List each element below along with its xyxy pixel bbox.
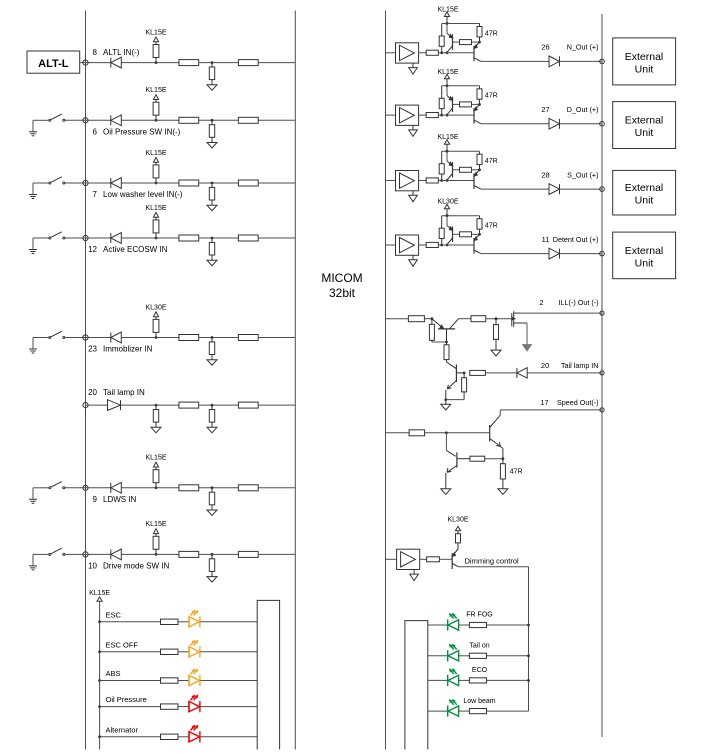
KL15E label and arrow S_Out (+) <box>437 134 458 151</box>
svg-text:47R: 47R <box>485 158 498 165</box>
svg-text:6: 6 <box>93 128 98 137</box>
wire base resistor to junction D_Out (+) <box>438 114 441 116</box>
svg-text:Immoblizer IN: Immoblizer IN <box>103 345 153 354</box>
wire LED supply rail bottom-left <box>99 601 101 749</box>
wire to 47R junction Detent Out (+) <box>472 233 480 235</box>
wire MICOM to buffer N_Out (+) <box>386 52 396 54</box>
junction 47R N_Out (+) <box>478 41 481 44</box>
svg-text:Alternator: Alternator <box>106 725 139 734</box>
output wire S_Out (+) <box>481 188 549 190</box>
svg-text:External: External <box>625 245 664 257</box>
KL15E pull-up row 9 <box>145 455 166 490</box>
svg-text:KL30E: KL30E <box>145 304 166 311</box>
wire speed base down <box>445 433 447 451</box>
External Unit box 3 <box>613 170 676 215</box>
buffer amplifier Detent Out (+) <box>396 235 419 266</box>
base resistor Detent Out (+) <box>426 242 438 247</box>
transistor Q1 N_Out (+) <box>447 24 453 53</box>
transistor Q speed lower <box>446 450 470 488</box>
svg-text:20: 20 <box>88 388 97 397</box>
wire block to LED FR FOG <box>428 624 448 626</box>
svg-text:28: 28 <box>541 170 549 179</box>
svg-text:Low beam: Low beam <box>463 698 495 705</box>
svg-text:KL15E: KL15E <box>437 7 458 14</box>
svg-text:LDWS IN: LDWS IN <box>103 495 137 504</box>
node ILL output <box>600 311 604 315</box>
resistor row 20 second <box>238 402 258 408</box>
KL15E pull-up row 7 <box>145 150 166 185</box>
svg-text:47R: 47R <box>485 30 498 37</box>
wire diode to bus tail <box>527 372 602 374</box>
svg-text:Drive mode SW IN: Drive mode SW IN <box>103 562 169 571</box>
resistor ILL vertical divider <box>429 319 434 342</box>
transistor Q2 S_Out (+) <box>474 170 481 189</box>
wire node to diode row 9 <box>86 487 111 489</box>
LED Oil Pressure <box>189 695 200 712</box>
LED Low beam <box>448 700 459 717</box>
svg-text:Low washer level IN(-): Low washer level IN(-) <box>103 190 183 199</box>
junction dots bottom Detent Out (+) <box>440 244 448 247</box>
wire diode to bus Detent Out (+) <box>560 253 603 255</box>
svg-text:ALTL IN(-): ALTL IN(-) <box>103 48 140 57</box>
47R resistor speed <box>500 459 505 489</box>
wire buffer to base resistor S_Out (+) <box>419 180 427 182</box>
supply rail N_Out (+) <box>442 23 480 25</box>
pull-down resistor with ground arrow row 23 <box>207 336 217 365</box>
resistor speed input <box>409 430 425 436</box>
output diode D_Out (+) <box>549 118 560 129</box>
wire speed resistor to Q1 <box>425 432 490 434</box>
junction ILL gate branch <box>495 317 498 320</box>
interbase resistor N_Out (+) <box>460 40 472 45</box>
svg-text:ALT-L: ALT-L <box>38 58 69 70</box>
wire LED to cluster ABS <box>200 680 257 682</box>
interbase resistor D_Out (+) <box>460 102 472 107</box>
resistor tail base <box>470 370 486 375</box>
node output N_Out (+) <box>600 59 605 64</box>
svg-text:FR FOG: FR FOG <box>466 612 492 619</box>
svg-text:ESC OFF: ESC OFF <box>106 640 139 649</box>
resistor ESC row <box>161 619 179 624</box>
junction ESC row <box>98 620 101 623</box>
junction ABS row <box>98 679 101 682</box>
wire to 47R junction D_Out (+) <box>472 103 480 105</box>
svg-text:Detent Out (+): Detent Out (+) <box>553 235 599 244</box>
diode row 12 <box>111 233 122 244</box>
wire resistor to rail Low beam <box>487 710 529 712</box>
resistor row 6 first <box>179 117 199 123</box>
base line Q1 N_Out (+) <box>453 41 460 43</box>
junction tail base <box>463 372 466 375</box>
svg-text:9: 9 <box>93 495 98 504</box>
wire between resistors row 23 <box>199 337 239 339</box>
pull-up resistor D_Out (+) <box>439 86 444 115</box>
wire MICOM to buffer D_Out (+) <box>386 114 396 116</box>
KL15E pull-up row 8 <box>145 29 166 64</box>
transistor Q1 D_Out (+) <box>447 86 453 115</box>
switch and ground for input 7 <box>29 177 86 199</box>
wire diode to pullup junction row 8 <box>121 62 156 64</box>
output wire N_Out (+) <box>481 60 549 62</box>
KL30E label dimming <box>447 517 468 534</box>
wire diode to pullup junction row 10 <box>121 553 156 555</box>
svg-text:Unit: Unit <box>635 127 654 139</box>
wire LED to cluster Alternator <box>200 736 257 738</box>
wire to MICOM row 9 <box>258 487 295 489</box>
transistor Q2 D_Out (+) <box>474 104 481 123</box>
pull-down resistor with ground arrow row 9 <box>207 486 217 515</box>
instrument cluster block bottom-left <box>257 600 279 749</box>
node output D_Out (+) <box>600 121 605 126</box>
output wire Detent Out (+) <box>481 253 549 255</box>
node pin 10 on input bus <box>83 552 88 557</box>
wire node to diode row 7 <box>86 182 111 184</box>
wire ESC OFF row <box>100 651 161 653</box>
ground arrow MOSFET source <box>523 345 532 351</box>
wire ALT-L to bus <box>80 62 86 64</box>
wire diode to bus N_Out (+) <box>560 60 603 62</box>
svg-text:Active ECOSW IN: Active ECOSW IN <box>103 245 168 254</box>
wire diode to bus D_Out (+) <box>560 123 603 125</box>
wire bottom to Q2 D_Out (+) <box>442 114 474 116</box>
wire dimming control <box>459 566 529 568</box>
wire buffer to base resistor D_Out (+) <box>419 114 427 116</box>
svg-text:KL15E: KL15E <box>145 205 166 212</box>
LED Alternator <box>189 726 200 743</box>
switch and ground for input 6 <box>29 114 86 136</box>
wire to 47R junction S_Out (+) <box>472 169 480 171</box>
wire resistor to LED Alternator <box>178 736 189 738</box>
wire node to diode row 10 <box>86 553 111 555</box>
47R resistor N_Out (+) <box>477 24 482 43</box>
resistor row 9 first <box>179 485 199 491</box>
svg-text:ESC: ESC <box>106 610 122 619</box>
svg-text:ECO: ECO <box>472 667 488 674</box>
wire between resistors row 9 <box>199 487 239 489</box>
transistor Q2 Detent Out (+) <box>474 234 481 253</box>
External Unit box 4 <box>613 232 676 279</box>
ground arrow speed 47R <box>498 489 508 495</box>
svg-text:47R: 47R <box>485 223 498 230</box>
switch and ground for input 23 <box>29 331 86 353</box>
KL15E label and arrow N_Out (+) <box>437 7 458 24</box>
KL15E pull-up row 12 <box>145 205 166 240</box>
wire MICOM to dimming buffer <box>386 558 397 560</box>
47R resistor S_Out (+) <box>477 151 482 170</box>
svg-text:MICOM: MICOM <box>321 271 362 285</box>
wire bottom to Q2 N_Out (+) <box>442 52 474 54</box>
svg-text:10: 10 <box>88 562 97 571</box>
transistor Q speed upper <box>490 415 503 459</box>
junction dots bottom S_Out (+) <box>440 179 448 182</box>
wire between resistors row 10 <box>199 553 239 555</box>
wire Alternator row <box>100 736 161 738</box>
resistor row 10 first <box>179 551 199 557</box>
rail junction N_Out (+) <box>446 22 449 25</box>
wire MICOM to speed resistor <box>386 432 410 434</box>
wire resistor to rail Tail on <box>487 655 529 657</box>
svg-text:Tail lamp IN: Tail lamp IN <box>103 388 145 397</box>
resistor row 10 second <box>238 551 258 557</box>
svg-text:7: 7 <box>93 190 98 199</box>
wire right output bus <box>601 14 603 737</box>
wire diode to pullup junction row 7 <box>121 182 156 184</box>
wire tail resistor to diode <box>485 372 517 374</box>
wire resistor to LED ESC OFF <box>178 651 189 653</box>
output diode Detent Out (+) <box>549 248 560 259</box>
wire resistor to LED ABS <box>178 680 189 682</box>
transistor Q tail <box>446 362 464 400</box>
resistor speed interbase <box>470 456 485 461</box>
node pin 6 on input bus <box>83 118 88 123</box>
wire to MICOM row 23 <box>258 337 295 339</box>
transistor Q dimming <box>452 549 458 569</box>
buffer amplifier N_Out (+) <box>396 43 419 74</box>
LED FR FOG <box>448 614 459 631</box>
wire LED to resistor Low beam <box>459 710 470 712</box>
resistor Tail on <box>469 653 486 658</box>
wire MICOM to ILL resistor <box>386 318 409 320</box>
wire MICOM to buffer Detent Out (+) <box>386 244 396 246</box>
output wire D_Out (+) <box>481 123 549 125</box>
junction ESC OFF row <box>98 650 101 653</box>
node pin 8 on input bus <box>83 60 88 65</box>
wire diode to pullup junction row 23 <box>121 337 156 339</box>
junction tail emitter <box>444 398 447 401</box>
rail junction D_Out (+) <box>446 84 449 87</box>
transistor Q1 Detent Out (+) <box>447 216 453 245</box>
resistor dimming pull-up <box>456 534 461 549</box>
diode row 20 <box>108 400 121 411</box>
ALT-L external block <box>27 51 80 73</box>
wire divider to base junction <box>432 341 447 343</box>
diode row 7 <box>111 178 122 189</box>
External Unit box 1 <box>613 38 676 85</box>
base line Q1 Detent Out (+) <box>453 233 460 235</box>
diode row 10 <box>111 549 122 560</box>
supply rail Detent Out (+) <box>442 215 480 217</box>
wire left input bus <box>85 11 87 750</box>
supply rail S_Out (+) <box>442 150 480 152</box>
svg-text:D_Out (+): D_Out (+) <box>567 105 599 114</box>
wire junction to first resistor row 12 <box>156 237 179 239</box>
wire speed output <box>500 409 602 411</box>
wire diode to junction row 20 <box>121 404 156 406</box>
resistor FR FOG <box>469 622 486 627</box>
svg-text:KL15E: KL15E <box>145 29 166 36</box>
svg-text:2: 2 <box>539 298 543 307</box>
resistor row 7 second <box>238 180 258 186</box>
node speed out <box>600 408 604 412</box>
buffer amplifier D_Out (+) <box>396 105 419 136</box>
resistor row 23 first <box>179 335 199 341</box>
svg-text:20: 20 <box>541 361 549 370</box>
wire buffer to base resistor Detent Out (+) <box>419 244 427 246</box>
wire to MICOM row 7 <box>258 182 295 184</box>
wire dimming rail down <box>528 567 530 711</box>
node tail lamp IN <box>600 371 604 375</box>
svg-text:23: 23 <box>88 345 97 354</box>
wire node to diode row 23 <box>86 337 111 339</box>
wire resistor to LED ESC <box>178 621 189 623</box>
pull-down resistor with ground arrow row 20 <box>207 404 217 433</box>
wire to 47R junction N_Out (+) <box>472 41 480 43</box>
svg-text:11: 11 <box>542 235 550 244</box>
junction 47R D_Out (+) <box>478 103 481 106</box>
pull-down resistor with ground arrow row 8 <box>207 61 217 90</box>
diode row 9 <box>111 482 122 493</box>
wire base resistor to junction Detent Out (+) <box>438 244 441 246</box>
wire resistor to LED Oil Pressure <box>178 706 189 708</box>
resistor ABS row <box>161 678 179 683</box>
wire node to diode row 8 <box>86 62 111 64</box>
resistor ILL second <box>471 316 486 322</box>
wire bottom to Q2 Detent Out (+) <box>442 244 474 246</box>
junction speed base <box>445 431 448 434</box>
emitter resistor tail <box>462 373 467 400</box>
pull-down resistor with arrow at first junction row 20 <box>151 404 161 433</box>
svg-text:Unit: Unit <box>635 63 654 75</box>
KL30E pull-up row 23 <box>145 304 166 339</box>
wire tail emitter bottom <box>446 399 464 401</box>
pull-up resistor Detent Out (+) <box>439 216 444 245</box>
resistor ILL input <box>408 316 424 322</box>
External Unit box 2 <box>613 102 676 149</box>
pull-down resistor with ground arrow row 12 <box>207 237 217 266</box>
wire junction to first resistor row 9 <box>156 487 179 489</box>
ground arrow tail <box>441 400 451 410</box>
wire between resistors row 12 <box>199 237 239 239</box>
base resistor S_Out (+) <box>426 178 438 183</box>
output diode S_Out (+) <box>549 184 560 195</box>
wire node to diode row 6 <box>86 119 111 121</box>
svg-text:N_Out (+): N_Out (+) <box>567 43 599 52</box>
resistor row 9 second <box>238 485 258 491</box>
wire junction to first resistor row 6 <box>156 119 179 121</box>
resistor row 8 first <box>179 60 199 66</box>
junction dots bottom N_Out (+) <box>440 51 448 54</box>
base line Q1 S_Out (+) <box>453 169 460 171</box>
svg-text:47R: 47R <box>510 469 523 476</box>
svg-text:KL30E: KL30E <box>437 199 458 206</box>
svg-text:KL15E: KL15E <box>89 590 110 597</box>
junction 47R S_Out (+) <box>478 168 481 171</box>
wire between resistors row 7 <box>199 182 239 184</box>
junction rail ECO <box>527 679 530 682</box>
svg-text:Tail lamp IN: Tail lamp IN <box>561 361 599 370</box>
resistor row 7 first <box>179 180 199 186</box>
junction ILL lower <box>445 341 448 344</box>
diode row 23 <box>111 332 122 343</box>
wire MICOM right edge bus <box>385 11 387 750</box>
wire buffer to dimming resistor <box>420 558 427 560</box>
wire diode to pullup junction row 9 <box>121 487 156 489</box>
svg-text:12: 12 <box>88 245 97 254</box>
svg-text:Unit: Unit <box>635 195 654 207</box>
node pin 23 on input bus <box>83 335 88 340</box>
wire junction to first resistor row 10 <box>156 553 179 555</box>
wire resistor to rail ECO <box>487 679 529 681</box>
transistor Q2 N_Out (+) <box>474 42 481 61</box>
wire junction to first resistor row 20 <box>156 404 179 406</box>
svg-text:32bit: 32bit <box>329 286 356 300</box>
LED ECO <box>448 669 459 686</box>
node output S_Out (+) <box>600 187 605 192</box>
wire resistor to rail FR FOG <box>487 624 529 626</box>
svg-text:KL15E: KL15E <box>145 455 166 462</box>
wire block to LED ECO <box>428 679 448 681</box>
47R resistor D_Out (+) <box>477 86 482 105</box>
wire LED to resistor Tail on <box>459 655 470 657</box>
junction rail Tail on <box>527 654 530 657</box>
buffer amplifier S_Out (+) <box>396 171 419 202</box>
wire speed collector up <box>499 410 501 415</box>
KL30E label and arrow Detent Out (+) <box>437 199 458 216</box>
wire bottom to Q2 S_Out (+) <box>442 180 474 182</box>
svg-text:External: External <box>625 115 664 127</box>
resistor Alternator row <box>161 734 179 739</box>
svg-text:KL15E: KL15E <box>437 69 458 76</box>
pull-down resistor with ground arrow row 6 <box>207 119 217 148</box>
resistor ESC OFF row <box>161 649 179 654</box>
wire to MICOM row 10 <box>258 553 295 555</box>
wire to MICOM row 6 <box>258 119 295 121</box>
svg-text:KL15E: KL15E <box>145 150 166 157</box>
diode tail lamp IN <box>517 368 527 378</box>
LED ESC OFF <box>189 641 200 658</box>
wire LED to cluster Oil Pressure <box>200 706 257 708</box>
wire ILL output <box>520 312 602 314</box>
diode row 8 <box>111 57 122 68</box>
wire ESC row <box>100 621 161 623</box>
svg-text:KL15E: KL15E <box>145 87 166 94</box>
junction Oil Pressure row <box>98 705 101 708</box>
resistor row 12 second <box>238 235 258 241</box>
resistor row 20 first <box>179 402 199 408</box>
resistor chain ILL to tail <box>444 342 449 362</box>
ground arrow speed emitter <box>441 489 451 495</box>
indicator block bottom-right <box>405 621 428 750</box>
LED ESC <box>189 611 200 628</box>
pull-up resistor N_Out (+) <box>439 24 444 53</box>
wire resistor to Q dimming <box>439 558 452 560</box>
wire base resistor to junction S_Out (+) <box>438 180 441 182</box>
svg-text:External: External <box>625 51 664 63</box>
pull-down resistor ILL <box>491 319 501 356</box>
wire between resistors row 6 <box>199 119 239 121</box>
svg-text:Oil Pressure SW IN(-): Oil Pressure SW IN(-) <box>103 128 181 137</box>
KL15E pull-up row 6 <box>145 87 166 122</box>
wire interbase to 47R junction <box>485 458 503 460</box>
interbase resistor Detent Out (+) <box>460 232 472 237</box>
svg-text:Unit: Unit <box>635 257 654 269</box>
wire ABS row <box>100 680 161 682</box>
switch and ground for input 9 <box>29 482 86 504</box>
base resistor N_Out (+) <box>426 50 438 55</box>
KL15E supply label bottom-left <box>89 590 110 601</box>
svg-text:27: 27 <box>541 105 549 114</box>
wire base resistor to junction N_Out (+) <box>438 52 441 54</box>
pull-down resistor with ground arrow row 7 <box>207 182 217 211</box>
wire junction to first resistor row 23 <box>156 337 179 339</box>
MOSFET ILL output <box>512 311 527 344</box>
svg-text:KL30E: KL30E <box>447 517 468 524</box>
svg-text:8: 8 <box>93 48 98 57</box>
svg-text:ILL(-) Out (-): ILL(-) Out (-) <box>559 298 599 307</box>
pull-up resistor S_Out (+) <box>439 151 444 180</box>
supply rail D_Out (+) <box>442 85 480 87</box>
svg-text:KL15E: KL15E <box>437 134 458 141</box>
